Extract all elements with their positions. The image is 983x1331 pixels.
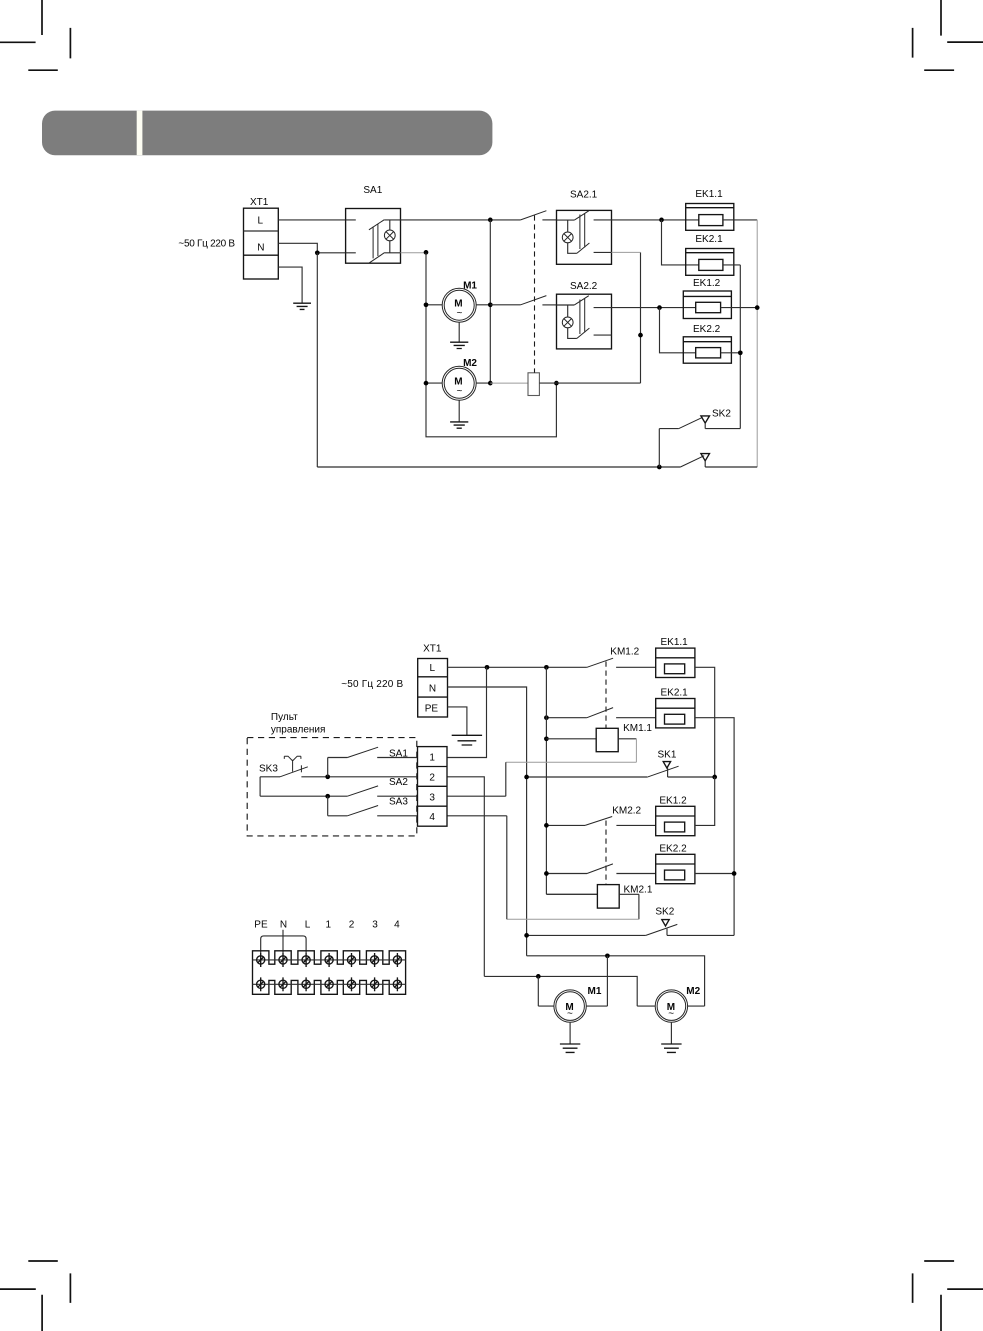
svg-text:EK2.1: EK2.1 — [695, 234, 723, 245]
svg-text:KM1.1: KM1.1 — [623, 723, 652, 734]
dashed link KM1.2 — [605, 662, 607, 729]
svg-text:EK2.1: EK2.1 — [661, 688, 689, 699]
contact SA2.1 input — [521, 211, 547, 220]
terminal column 1-4 — [418, 747, 448, 827]
wire EK2.1 right — [695, 718, 734, 936]
wire M2 right to actuator box — [490, 382, 528, 384]
wire N XT1 jog — [278, 243, 345, 253]
svg-text:SK3: SK3 — [259, 763, 278, 774]
crop marks bottom-left — [0, 1261, 70, 1331]
contactor contact KM1.2 lower — [546, 708, 655, 718]
jumper PE-L — [261, 936, 306, 953]
svg-text:EK2.2: EK2.2 — [693, 324, 721, 335]
wire SA1 top output to SA2.1 — [401, 219, 521, 221]
wire right column to SK2 — [756, 220, 758, 467]
svg-text:~: ~ — [457, 308, 463, 319]
wire KM2.1 left — [546, 893, 597, 895]
ground XT1 — [293, 303, 311, 309]
svg-text:4: 4 — [429, 812, 435, 823]
svg-text:EK1.1: EK1.1 — [695, 189, 723, 200]
heater EK2.2 — [656, 854, 695, 883]
wire M1 right to SA2.2 — [490, 304, 520, 306]
ground PE — [452, 735, 482, 745]
strip body outline — [253, 951, 406, 995]
wire SA2.1 out to EK1.1 — [612, 219, 699, 221]
node SK2 bottom — [657, 465, 662, 470]
switch SA3 — [328, 796, 418, 816]
wire actuator to EK feed vertical — [539, 382, 640, 384]
svg-text:M2: M2 — [463, 358, 477, 369]
heater EK1.2 — [683, 291, 757, 319]
node EK1.2 branch — [657, 305, 662, 310]
svg-text:SA1: SA1 — [363, 185, 382, 196]
wire SA1 bottom output — [401, 252, 427, 254]
thermal switch SK1 — [524, 762, 717, 780]
motor M1 — [554, 956, 608, 1053]
thermal switch SK2 lower contact — [680, 454, 757, 467]
wire t1 to L — [447, 667, 487, 757]
svg-text:EK1.1: EK1.1 — [661, 637, 689, 648]
svg-text:SK2: SK2 — [655, 907, 674, 918]
contactor contact KM1.2 upper — [587, 658, 656, 667]
wire vertical motor feed — [489, 220, 491, 383]
node SA1 tap — [325, 774, 330, 779]
contactor coil KM1.1 — [596, 728, 618, 751]
push button SK3 — [260, 756, 418, 777]
motor M2 — [655, 990, 687, 1053]
dashed link KM2.2 — [605, 821, 607, 885]
node M1 right — [605, 953, 610, 958]
node EK feed — [638, 333, 643, 338]
svg-text:L: L — [258, 216, 264, 227]
svg-text:L: L — [430, 663, 436, 674]
svg-text:SA3: SA3 — [389, 796, 408, 807]
svg-text:SK1: SK1 — [658, 749, 677, 760]
svg-text:N: N — [257, 243, 264, 254]
wire N down to bottom rail — [316, 253, 318, 467]
wire SK2 top feed — [659, 429, 679, 467]
svg-text:M1: M1 — [463, 280, 477, 291]
header bar — [42, 111, 492, 156]
motor M1 — [424, 288, 493, 348]
svg-text:L: L — [305, 919, 311, 930]
wire SA2.2 out to EK1.2 — [612, 307, 696, 309]
wire EK1.2 right — [695, 777, 715, 825]
svg-text:4: 4 — [394, 919, 400, 930]
wire L feed vertical — [546, 667, 597, 894]
contact SA2.2 input — [521, 296, 547, 305]
node L rail — [488, 218, 493, 223]
wire branch to EK2.1 — [662, 220, 699, 265]
svg-text:SA2: SA2 — [389, 777, 408, 788]
svg-text:SA1: SA1 — [389, 749, 408, 760]
row lines — [253, 960, 406, 984]
svg-text:M1: M1 — [588, 986, 602, 997]
node M1 left — [536, 974, 541, 979]
svg-text:EK1.2: EK1.2 — [693, 278, 721, 289]
svg-text:Пульт: Пульт — [271, 712, 298, 723]
wire M1 left branch — [538, 976, 553, 1006]
svg-text:~: ~ — [567, 1009, 573, 1020]
svg-text:SA2.2: SA2.2 — [570, 281, 598, 292]
wire EK feed vertical — [640, 252, 642, 383]
wire branch to EK2.2 — [660, 308, 696, 353]
dashed link SA2 — [534, 215, 536, 372]
wire EK2.2 right — [695, 873, 734, 875]
switch SA2.1 — [557, 210, 612, 264]
wire EK2.1 right column — [739, 265, 741, 429]
svg-text:3: 3 — [372, 919, 378, 930]
svg-text:KM1.2: KM1.2 — [610, 647, 639, 658]
svg-text:XT1: XT1 — [250, 197, 269, 208]
svg-text:3: 3 — [429, 792, 435, 803]
thermal switch SK2 — [524, 920, 734, 938]
svg-text:2: 2 — [349, 919, 355, 930]
svg-text:N: N — [280, 919, 287, 930]
wire N bottom rail — [527, 956, 705, 1006]
crop marks bottom-right — [913, 1261, 983, 1331]
svg-text:2: 2 — [429, 773, 435, 784]
wire KM2.1 right to t4 — [619, 894, 639, 919]
svg-text:SA2.1: SA2.1 — [570, 189, 598, 200]
svg-text:EK2.2: EK2.2 — [659, 843, 687, 854]
switch SA1 — [346, 209, 401, 264]
node KM2.2 upper — [544, 823, 549, 828]
svg-text:M2: M2 — [686, 986, 700, 997]
node KM2.2 lower — [544, 871, 549, 876]
svg-text:EK1.2: EK1.2 — [659, 795, 687, 806]
wire SA2.1 bottom output — [612, 251, 641, 253]
wire PE from XT1 — [278, 267, 302, 303]
terminal block XT1 — [418, 659, 448, 718]
heater EK2.2 — [683, 337, 740, 363]
wire SA2 row — [260, 795, 347, 797]
node L feed — [544, 665, 549, 670]
node loop top — [554, 381, 559, 386]
svg-text:PE: PE — [254, 919, 268, 930]
wire EK1.1 right — [695, 667, 715, 777]
svg-text:~: ~ — [457, 386, 463, 397]
wire N — [448, 687, 527, 956]
contactor contact KM2.2 upper — [546, 817, 655, 826]
wire bottom rail — [317, 466, 680, 468]
thermal switch SK2 upper contact — [679, 416, 741, 429]
wire KM1.1 right to t3 — [618, 738, 636, 740]
node EK1.1 branch — [659, 218, 664, 223]
svg-text:KM2.2: KM2.2 — [612, 806, 641, 817]
node EK2.2 right — [738, 350, 743, 355]
svg-text:~: ~ — [668, 1009, 674, 1020]
svg-text:N: N — [429, 684, 436, 695]
wire KM1.1 left — [546, 738, 596, 740]
heater EK1.2 — [656, 806, 695, 835]
svg-text:PE: PE — [425, 704, 439, 715]
svg-text:SK2: SK2 — [712, 408, 731, 419]
heater EK2.1 — [686, 249, 741, 276]
node KM1.1 left — [544, 736, 549, 741]
node SA1 bottom output — [424, 250, 429, 255]
contactor contact KM2.2 lower — [546, 864, 655, 874]
wire L rail — [448, 666, 587, 668]
wire t2 long — [447, 777, 655, 1006]
node EK2.2 right — [732, 871, 737, 876]
terminal block XT1 — [244, 208, 279, 279]
wire EK1.1 right — [734, 219, 757, 221]
node L t1 — [485, 665, 490, 670]
control panel dashed box — [247, 738, 417, 836]
svg-text:~50 Гц 220 В: ~50 Гц 220 В — [178, 238, 235, 249]
heater EK1.1 — [656, 648, 695, 677]
wire PE — [448, 707, 467, 735]
wire SK3 left drop — [259, 777, 261, 796]
heater EK1.1 — [686, 204, 734, 231]
node EK1.2 right — [755, 305, 760, 310]
screws row bottom — [257, 977, 402, 991]
actuator box — [528, 373, 539, 396]
svg-text:1: 1 — [429, 753, 435, 764]
contactor coil KM2.1 — [597, 885, 619, 909]
switch SA1 — [328, 747, 418, 777]
crop marks top-right — [913, 0, 983, 70]
wire L XT1 to SA1 — [278, 219, 345, 221]
heater EK2.1 — [656, 699, 695, 728]
wire motor left loop — [426, 253, 556, 437]
node SA3 tap — [325, 794, 330, 799]
switch SA2 — [347, 786, 417, 796]
svg-text:XT1: XT1 — [423, 644, 442, 655]
svg-text:~50 Гц 220 В: ~50 Гц 220 В — [341, 679, 403, 690]
motor M2 — [424, 366, 493, 428]
crop marks top-left — [0, 0, 70, 70]
svg-text:1: 1 — [326, 919, 332, 930]
node N junction — [315, 250, 320, 255]
switch SA2.2 — [557, 294, 612, 349]
node KM1.2 lower — [544, 715, 549, 720]
lead N — [282, 930, 284, 953]
svg-text:управления: управления — [271, 725, 326, 736]
screws row top — [257, 953, 402, 967]
